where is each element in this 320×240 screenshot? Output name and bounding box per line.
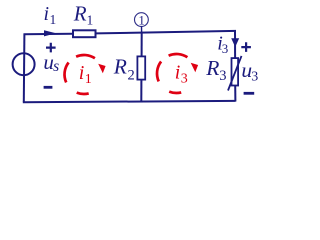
svg-text:1: 1	[50, 12, 57, 27]
wire middle branch upper	[141, 32, 143, 57]
node 1 circle	[135, 13, 149, 27]
resistor R3	[232, 58, 239, 85]
svg-text:s: s	[53, 58, 59, 75]
R3 adjustable diagonal stroke	[228, 56, 242, 91]
wire middle branch lower	[140, 80, 142, 102]
wire bottom	[23, 101, 236, 102]
wire right branch upper	[234, 30, 236, 58]
svg-text:i: i	[79, 62, 85, 84]
u3 minus sign	[244, 92, 255, 95]
resistor R2	[137, 56, 145, 79]
mesh current arc i3 (red dashed circle with arrowhead)	[157, 54, 187, 93]
svg-text:2: 2	[128, 68, 135, 84]
resistor R1	[73, 30, 96, 37]
source minus sign	[44, 86, 53, 89]
svg-text:3: 3	[222, 41, 229, 56]
current arrow i1 on top wire	[44, 30, 56, 36]
voltage source us circle	[13, 53, 35, 75]
svg-text:1: 1	[138, 12, 145, 27]
svg-text:1: 1	[85, 72, 92, 87]
svg-text:3: 3	[181, 72, 188, 87]
u3 plus sign	[241, 42, 251, 52]
mesh current arc i1 (red dashed circle with arrowhead)	[65, 55, 95, 94]
wire top-right segment	[96, 31, 236, 34]
svg-text:R: R	[73, 2, 87, 26]
source plus sign	[46, 43, 56, 53]
svg-text:i: i	[44, 3, 50, 25]
node 1 junction tick	[141, 26, 143, 32]
mesh current arc i3 arrowhead	[191, 63, 198, 72]
svg-text:i: i	[175, 62, 181, 84]
svg-text:3: 3	[251, 69, 258, 84]
svg-text:3: 3	[219, 68, 226, 84]
svg-text:1: 1	[87, 12, 94, 27]
wire left branch	[23, 34, 26, 102]
wire right branch lower	[234, 86, 236, 102]
wire top-left segment	[24, 33, 73, 35]
svg-text:R: R	[113, 55, 127, 79]
svg-text:R: R	[205, 56, 219, 80]
current arrow i3 on right branch	[231, 38, 239, 47]
mesh current arc i1 arrowhead	[98, 64, 105, 73]
